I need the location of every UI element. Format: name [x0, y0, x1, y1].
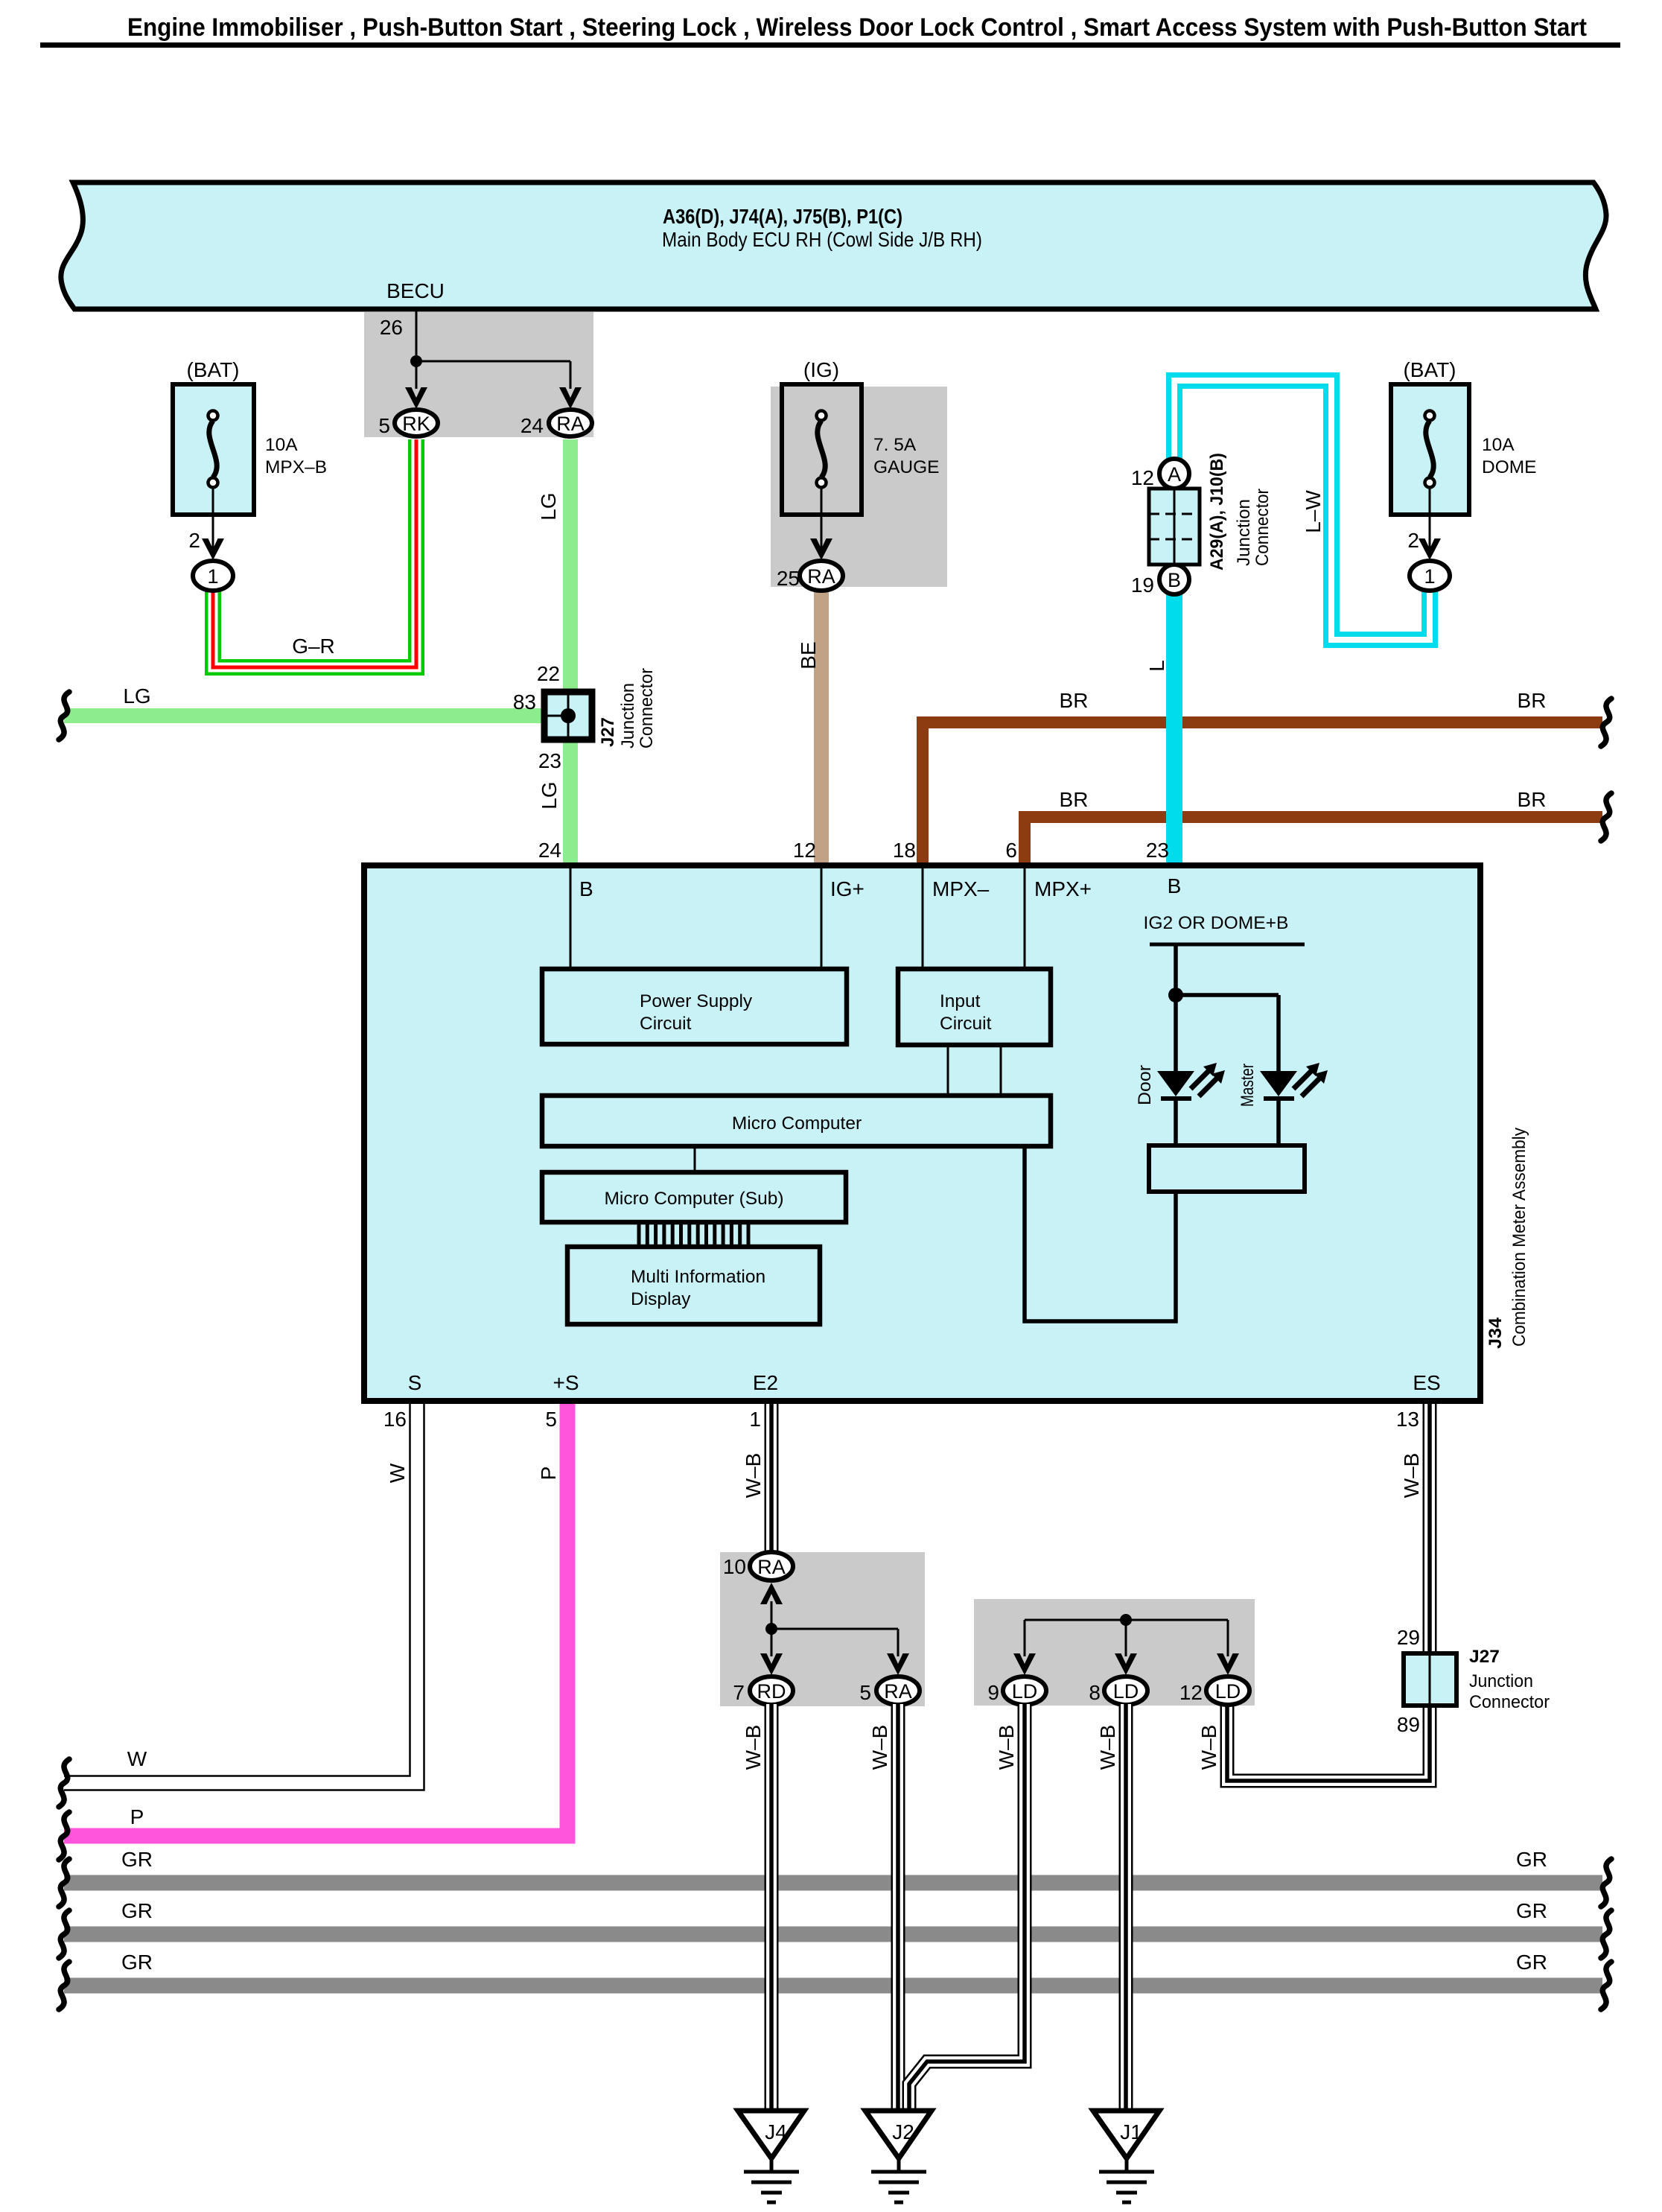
wire W-B LD9 to ground J2 (jog)	[909, 1704, 1025, 2112]
break P left	[59, 1812, 69, 1860]
svg-text:RD: RD	[757, 1680, 786, 1703]
wire IG2 to door LED	[1174, 944, 1178, 1071]
oval connector RD pin 7	[733, 1677, 793, 1705]
break BR lower right	[1601, 793, 1611, 841]
svg-text:Connector: Connector	[637, 668, 657, 749]
ground J4	[738, 2111, 804, 2202]
junction dot	[765, 1623, 777, 1635]
wire fuse MPX-B pin 2	[212, 487, 214, 551]
gray box (IG) GAUGE fuse	[771, 387, 947, 587]
svg-text:J27: J27	[1469, 1647, 1500, 1667]
junction connector J27 left	[544, 668, 657, 749]
svg-text:Junction: Junction	[618, 683, 638, 749]
wire P from pin 5	[64, 1404, 567, 1836]
svg-text:BR: BR	[1518, 788, 1547, 811]
wire micro computer to sub	[694, 1146, 696, 1172]
svg-text:Connector: Connector	[1469, 1692, 1550, 1712]
svg-text:Connector: Connector	[1252, 489, 1273, 566]
svg-text:MPX–: MPX–	[932, 877, 990, 900]
svg-text:7. 5A: 7. 5A	[873, 435, 917, 455]
oval connector 1 (DOME)	[1410, 561, 1450, 591]
svg-text:W–B: W–B	[1197, 1725, 1220, 1770]
svg-text:BR: BR	[1518, 689, 1547, 712]
wire fuse DOME pin 2	[1429, 487, 1431, 551]
svg-text:GR: GR	[1516, 1951, 1547, 1974]
svg-text:2: 2	[188, 529, 200, 552]
svg-text:W–B: W–B	[1096, 1725, 1119, 1770]
wire W-B RA5 to ground J2	[891, 1704, 905, 2112]
internal wire IG+ to power supply	[821, 868, 823, 969]
wire L from A29 pin B to meter pin 23	[1166, 588, 1182, 865]
svg-text:12: 12	[793, 839, 816, 862]
LED resistor box	[1149, 1145, 1305, 1192]
svg-text:5: 5	[859, 1681, 871, 1704]
ECU bus A36/J74/J75/P1 Main Body ECU RH	[61, 182, 1606, 309]
power supply circuit box	[542, 969, 847, 1044]
svg-text:22: 22	[537, 662, 560, 685]
oval connector RA pin 24	[549, 410, 592, 436]
svg-text:ES: ES	[1413, 1371, 1440, 1394]
breaks GR left	[59, 1859, 69, 2009]
junction connector A29(A)/J10(B)	[1131, 453, 1273, 597]
wire BR lower (MPX+ pin 6)	[1025, 817, 1602, 865]
arrow into connector 1	[202, 538, 224, 560]
svg-text:26: 26	[380, 316, 403, 339]
svg-text:A36(D), J74(A), J75(B), P1(C): A36(D), J74(A), J75(B), P1(C)	[663, 205, 902, 228]
svg-text:GR: GR	[121, 1899, 153, 1922]
svg-text:5: 5	[545, 1408, 557, 1431]
svg-text:24: 24	[538, 839, 561, 862]
junction dot LED branch	[1168, 988, 1183, 1002]
svg-text:Micro Computer (Sub): Micro Computer (Sub)	[605, 1189, 784, 1209]
internal wire MPX+ to input circuit	[1024, 868, 1026, 969]
svg-text:MPX–B: MPX–B	[265, 457, 327, 477]
fuse DOME 10A	[1391, 358, 1537, 515]
svg-text:Master: Master	[1238, 1064, 1258, 1107]
svg-text:23: 23	[538, 749, 561, 772]
arrow up into RA10	[760, 1583, 783, 1604]
svg-text:W–B: W–B	[995, 1725, 1018, 1770]
svg-text:Display: Display	[631, 1289, 691, 1309]
wire W-B LD8 to ground J1	[1119, 1704, 1133, 2112]
multi information display box	[567, 1247, 820, 1324]
arrow into RA25	[810, 538, 832, 560]
svg-text:Power Supply: Power Supply	[640, 991, 753, 1011]
svg-text:13: 13	[1396, 1408, 1419, 1431]
svg-text:RA: RA	[807, 565, 835, 588]
wire GR 1	[64, 1875, 1602, 1891]
svg-text:P: P	[130, 1805, 144, 1828]
svg-text:2: 2	[1407, 529, 1419, 552]
break BR upper right	[1601, 699, 1611, 746]
svg-text:Multi Information: Multi Information	[631, 1267, 765, 1287]
svg-text:12: 12	[1179, 1681, 1203, 1704]
svg-text:19: 19	[1131, 573, 1154, 597]
svg-text:16: 16	[383, 1408, 407, 1431]
fuse GAUGE 7.5A	[782, 358, 940, 515]
wire G-R from RK down and to connector 1	[213, 439, 416, 667]
svg-text:IG+: IG+	[830, 877, 865, 900]
svg-text:J27: J27	[598, 717, 618, 747]
svg-text:(BAT): (BAT)	[186, 358, 239, 381]
svg-text:Combination Meter Assembly: Combination Meter Assembly	[1509, 1127, 1529, 1347]
arrow into RK	[405, 387, 427, 409]
combination meter assembly J34 box	[364, 865, 1480, 1401]
svg-text:6: 6	[1005, 839, 1017, 862]
svg-text:Circuit: Circuit	[940, 1014, 992, 1034]
wire W-B RD7 to ground J4	[765, 1704, 779, 2112]
svg-text:Micro Computer: Micro Computer	[732, 1113, 862, 1134]
svg-text:MPX+: MPX+	[1034, 877, 1092, 900]
svg-text:LD: LD	[1012, 1680, 1038, 1703]
svg-text:12: 12	[1131, 466, 1154, 489]
svg-text:RA: RA	[757, 1556, 786, 1578]
svg-text:LG: LG	[537, 492, 560, 520]
wire LG vertical from RA24 to meter pin 24	[563, 439, 578, 865]
svg-text:29: 29	[1397, 1626, 1420, 1649]
svg-text:Junction: Junction	[1469, 1671, 1533, 1691]
junction dot node 26	[410, 355, 422, 367]
svg-text:W–B: W–B	[742, 1725, 765, 1770]
arrow down into RA5	[887, 1653, 909, 1675]
svg-text:10: 10	[723, 1555, 746, 1578]
svg-text:8: 8	[1089, 1681, 1101, 1704]
svg-text:B: B	[1168, 569, 1181, 591]
svg-text:GR: GR	[121, 1848, 153, 1871]
svg-text:24: 24	[520, 414, 544, 437]
svg-text:IG2 OR DOME+B: IG2 OR DOME+B	[1144, 913, 1289, 933]
svg-text:BE: BE	[797, 641, 820, 669]
arrow down into LD9	[1013, 1653, 1036, 1675]
wire LED return to micro computer	[1025, 1146, 1176, 1321]
break symbol LG left	[59, 692, 69, 740]
oval connector RA pin 25	[800, 561, 843, 591]
wire BE from RA25 to meter pin 12	[814, 588, 829, 865]
svg-text:1: 1	[749, 1408, 761, 1431]
labels GR left	[121, 1848, 153, 1974]
arrow down into LD12	[1217, 1653, 1239, 1675]
svg-text:18: 18	[893, 839, 916, 862]
svg-text:RK: RK	[402, 413, 430, 435]
svg-text:J1: J1	[1120, 2120, 1142, 2143]
ground J2	[865, 2111, 932, 2202]
oval connector LD pin 12	[1179, 1677, 1249, 1705]
arrow down into LD8	[1115, 1653, 1137, 1675]
svg-text:DOME: DOME	[1482, 457, 1537, 477]
input circuit box	[898, 969, 1051, 1045]
oval connector 1 (MPX-B)	[193, 561, 233, 591]
bus lines input circuit to micro computer	[948, 1045, 1001, 1096]
micro computer box	[542, 1096, 1051, 1146]
svg-text:L–W: L–W	[1302, 490, 1325, 533]
svg-text:GR: GR	[121, 1951, 153, 1974]
ground J1	[1093, 2111, 1159, 2202]
wires inside LD box	[1025, 1620, 1228, 1656]
svg-text:W–B: W–B	[1400, 1453, 1423, 1498]
title: system header	[40, 13, 1620, 48]
oval connector LD pin 9	[987, 1677, 1046, 1705]
svg-text:W–B: W–B	[742, 1453, 765, 1498]
svg-text:LG: LG	[538, 781, 561, 809]
svg-text:25: 25	[777, 567, 800, 590]
oval connector LD pin 8	[1089, 1677, 1147, 1705]
gray connector box (RA10/RD7/RA5)	[720, 1552, 925, 1706]
svg-text:RA: RA	[884, 1680, 912, 1703]
svg-text:Junction: Junction	[1234, 499, 1254, 566]
wire BR upper (MPX- pin 18)	[923, 722, 1602, 865]
break W left	[59, 1759, 69, 1807]
svg-text:89: 89	[1397, 1713, 1420, 1736]
svg-text:B: B	[1168, 874, 1182, 897]
svg-text:LG: LG	[123, 684, 150, 708]
svg-text:G–R: G–R	[292, 635, 335, 658]
svg-text:W: W	[386, 1463, 409, 1483]
ribbon cable hatch	[639, 1224, 748, 1248]
svg-text:10A: 10A	[1482, 435, 1515, 455]
LED Door	[1135, 1063, 1225, 1145]
wire branch to master LED	[1176, 995, 1279, 1071]
wire L-W from DOME connector 1 to A29 pin A	[1174, 381, 1430, 640]
breaks GR right	[1601, 1859, 1611, 2009]
internal wire MPX- to input circuit	[922, 868, 924, 969]
junction dot LD	[1120, 1614, 1132, 1626]
arrow into RA24	[559, 387, 582, 409]
svg-text:W: W	[127, 1747, 147, 1770]
svg-text:P: P	[537, 1466, 560, 1481]
oval connector RA pin 10	[723, 1552, 793, 1580]
svg-text:GAUGE: GAUGE	[873, 457, 940, 477]
oval connector RA pin 5	[859, 1677, 920, 1705]
svg-text:9: 9	[987, 1681, 999, 1704]
svg-text:W–B: W–B	[868, 1725, 891, 1770]
svg-text:Door: Door	[1135, 1065, 1155, 1105]
svg-text:(IG): (IG)	[803, 358, 839, 381]
svg-text:10A: 10A	[265, 435, 298, 455]
junction connector J27 right	[1404, 1647, 1550, 1712]
svg-text:A29(A), J10(B): A29(A), J10(B)	[1207, 453, 1227, 571]
wire GR 2	[64, 1927, 1602, 1942]
gray connector box (BECU 26 to RK/RA)	[364, 312, 593, 437]
svg-text:7: 7	[733, 1681, 745, 1704]
svg-text:+S: +S	[553, 1371, 579, 1394]
LED Master	[1238, 1063, 1328, 1145]
micro computer (sub) box	[542, 1172, 846, 1222]
wire fuse GAUGE pin 25	[821, 487, 823, 551]
svg-text:BR: BR	[1060, 788, 1089, 811]
svg-text:J2: J2	[892, 2120, 914, 2143]
svg-text:Circuit: Circuit	[640, 1014, 692, 1034]
svg-text:B: B	[579, 877, 593, 900]
svg-text:S: S	[408, 1371, 422, 1394]
wire GR 3	[64, 1978, 1602, 1994]
wire W from pin 16	[64, 1404, 424, 1790]
svg-text:1: 1	[207, 565, 218, 588]
node IG2 OR DOME+B	[1144, 913, 1305, 944]
labels GR right	[1516, 1848, 1547, 1974]
svg-text:LD: LD	[1113, 1680, 1139, 1703]
wire W-B from ES pin 13 to J27 and LD12	[1227, 1404, 1430, 1781]
svg-text:(BAT): (BAT)	[1403, 358, 1456, 381]
wire BECU pin 26	[416, 308, 570, 389]
svg-text:Main Body ECU RH (Cowl Side J/: Main Body ECU RH (Cowl Side J/B RH)	[662, 228, 982, 251]
svg-text:83: 83	[513, 690, 536, 714]
arrow into connector 1	[1419, 538, 1441, 560]
svg-text:GR: GR	[1516, 1899, 1547, 1922]
svg-text:L: L	[1145, 660, 1168, 672]
fuse MPX-B 10A	[173, 358, 327, 515]
svg-text:BECU: BECU	[386, 279, 445, 302]
svg-text:A: A	[1168, 463, 1181, 486]
arrow down into RD7	[760, 1653, 783, 1675]
svg-text:E2: E2	[753, 1371, 778, 1394]
svg-text:J4: J4	[765, 2120, 787, 2143]
oval connector RK pin 5	[395, 410, 438, 436]
gray connector box (LD9/LD8/LD12)	[974, 1599, 1255, 1706]
wire W-B from E2 pin 1 to RA10	[765, 1404, 779, 1554]
svg-text:RA: RA	[556, 413, 585, 435]
svg-text:BR: BR	[1060, 689, 1089, 712]
wires inside RA/RD box	[771, 1601, 898, 1656]
svg-text:J34: J34	[1486, 1318, 1506, 1349]
svg-text:23: 23	[1146, 839, 1169, 862]
svg-text:5: 5	[378, 414, 390, 437]
svg-text:Engine Immobiliser , Push-Butt: Engine Immobiliser , Push-Button Start ,…	[127, 13, 1587, 42]
svg-text:Input: Input	[940, 991, 981, 1011]
internal wire B to power supply	[570, 868, 572, 969]
svg-text:LD: LD	[1215, 1680, 1241, 1703]
wire LG horizontal to J27 pin 83	[64, 708, 570, 723]
svg-text:1: 1	[1424, 565, 1435, 588]
svg-text:GR: GR	[1516, 1848, 1547, 1871]
